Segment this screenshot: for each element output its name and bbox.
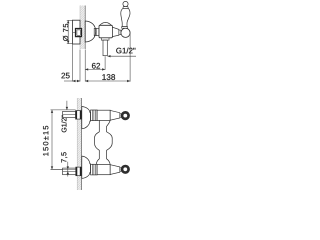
supply pipe bottom xyxy=(63,168,76,175)
extension line wall right face xyxy=(84,50,86,82)
extension line handle end xyxy=(129,33,131,82)
inlet horizontal body bottom xyxy=(97,165,110,175)
taper to handle bottom xyxy=(110,165,120,175)
cone adapter xyxy=(112,27,119,36)
bell escutcheon top xyxy=(82,107,91,129)
column left profile xyxy=(95,121,100,165)
column right profile xyxy=(107,121,113,165)
wall nut top xyxy=(76,111,82,120)
inlet horizontal body top xyxy=(97,110,110,120)
union nut bottom xyxy=(91,164,98,175)
dim 138 label xyxy=(102,74,115,80)
union nut top xyxy=(91,110,98,121)
extension line 150 bottom xyxy=(51,168,76,170)
bell escutcheon bottom xyxy=(82,156,91,178)
handle stub bottom xyxy=(120,168,121,172)
lever body xyxy=(121,9,130,27)
dim 62 line xyxy=(85,68,105,70)
dim 25 label xyxy=(61,73,69,79)
label G1/2 top view xyxy=(116,48,135,54)
lever collar xyxy=(123,7,128,9)
neck collar xyxy=(94,28,99,35)
handle end cap bottom xyxy=(121,165,130,174)
extension line pipe axis xyxy=(104,56,106,70)
re-draw 150 ext bottom over pipe xyxy=(51,168,76,170)
escutcheon dome xyxy=(85,21,96,42)
dim 138 line xyxy=(85,80,130,82)
label G1/2 front leader xyxy=(66,101,68,110)
lever base plate xyxy=(122,27,128,29)
handle stub top xyxy=(120,114,121,118)
square inlet fitting xyxy=(76,29,82,37)
dim Ø75 line xyxy=(67,20,69,43)
valve body cap arc xyxy=(100,22,112,25)
outlet adapter xyxy=(101,38,109,40)
wall section (front view) xyxy=(77,98,81,190)
dim 25 line xyxy=(64,80,80,82)
wall nut bottom xyxy=(76,167,81,176)
inlet centreline tick xyxy=(73,31,76,33)
label G1/2 front xyxy=(61,115,66,132)
valve body xyxy=(99,25,112,38)
extension line plate edge xyxy=(71,45,73,82)
dim 62 label xyxy=(92,63,100,69)
handle ball joint xyxy=(121,28,130,37)
extension line 150 top xyxy=(51,109,76,111)
label G1/2 top view leader xyxy=(108,55,137,57)
taper to handle top xyxy=(110,110,120,120)
extension line wall left face xyxy=(79,50,81,82)
handle end cap top xyxy=(121,111,130,120)
dim 150±15 line xyxy=(51,110,53,169)
dim 150±15 label xyxy=(43,126,48,156)
outlet pipe xyxy=(103,40,107,56)
lever knob xyxy=(123,1,128,6)
concealed flange plate xyxy=(72,20,80,44)
handle stem xyxy=(119,30,121,35)
dim Ø75 extension ticks xyxy=(67,19,73,21)
supply pipe top xyxy=(63,111,76,117)
dim 7,5 label xyxy=(61,152,67,162)
wall section (top view) xyxy=(80,6,85,50)
dim 7,5 line xyxy=(67,162,69,177)
dim Ø75 label xyxy=(63,24,68,41)
